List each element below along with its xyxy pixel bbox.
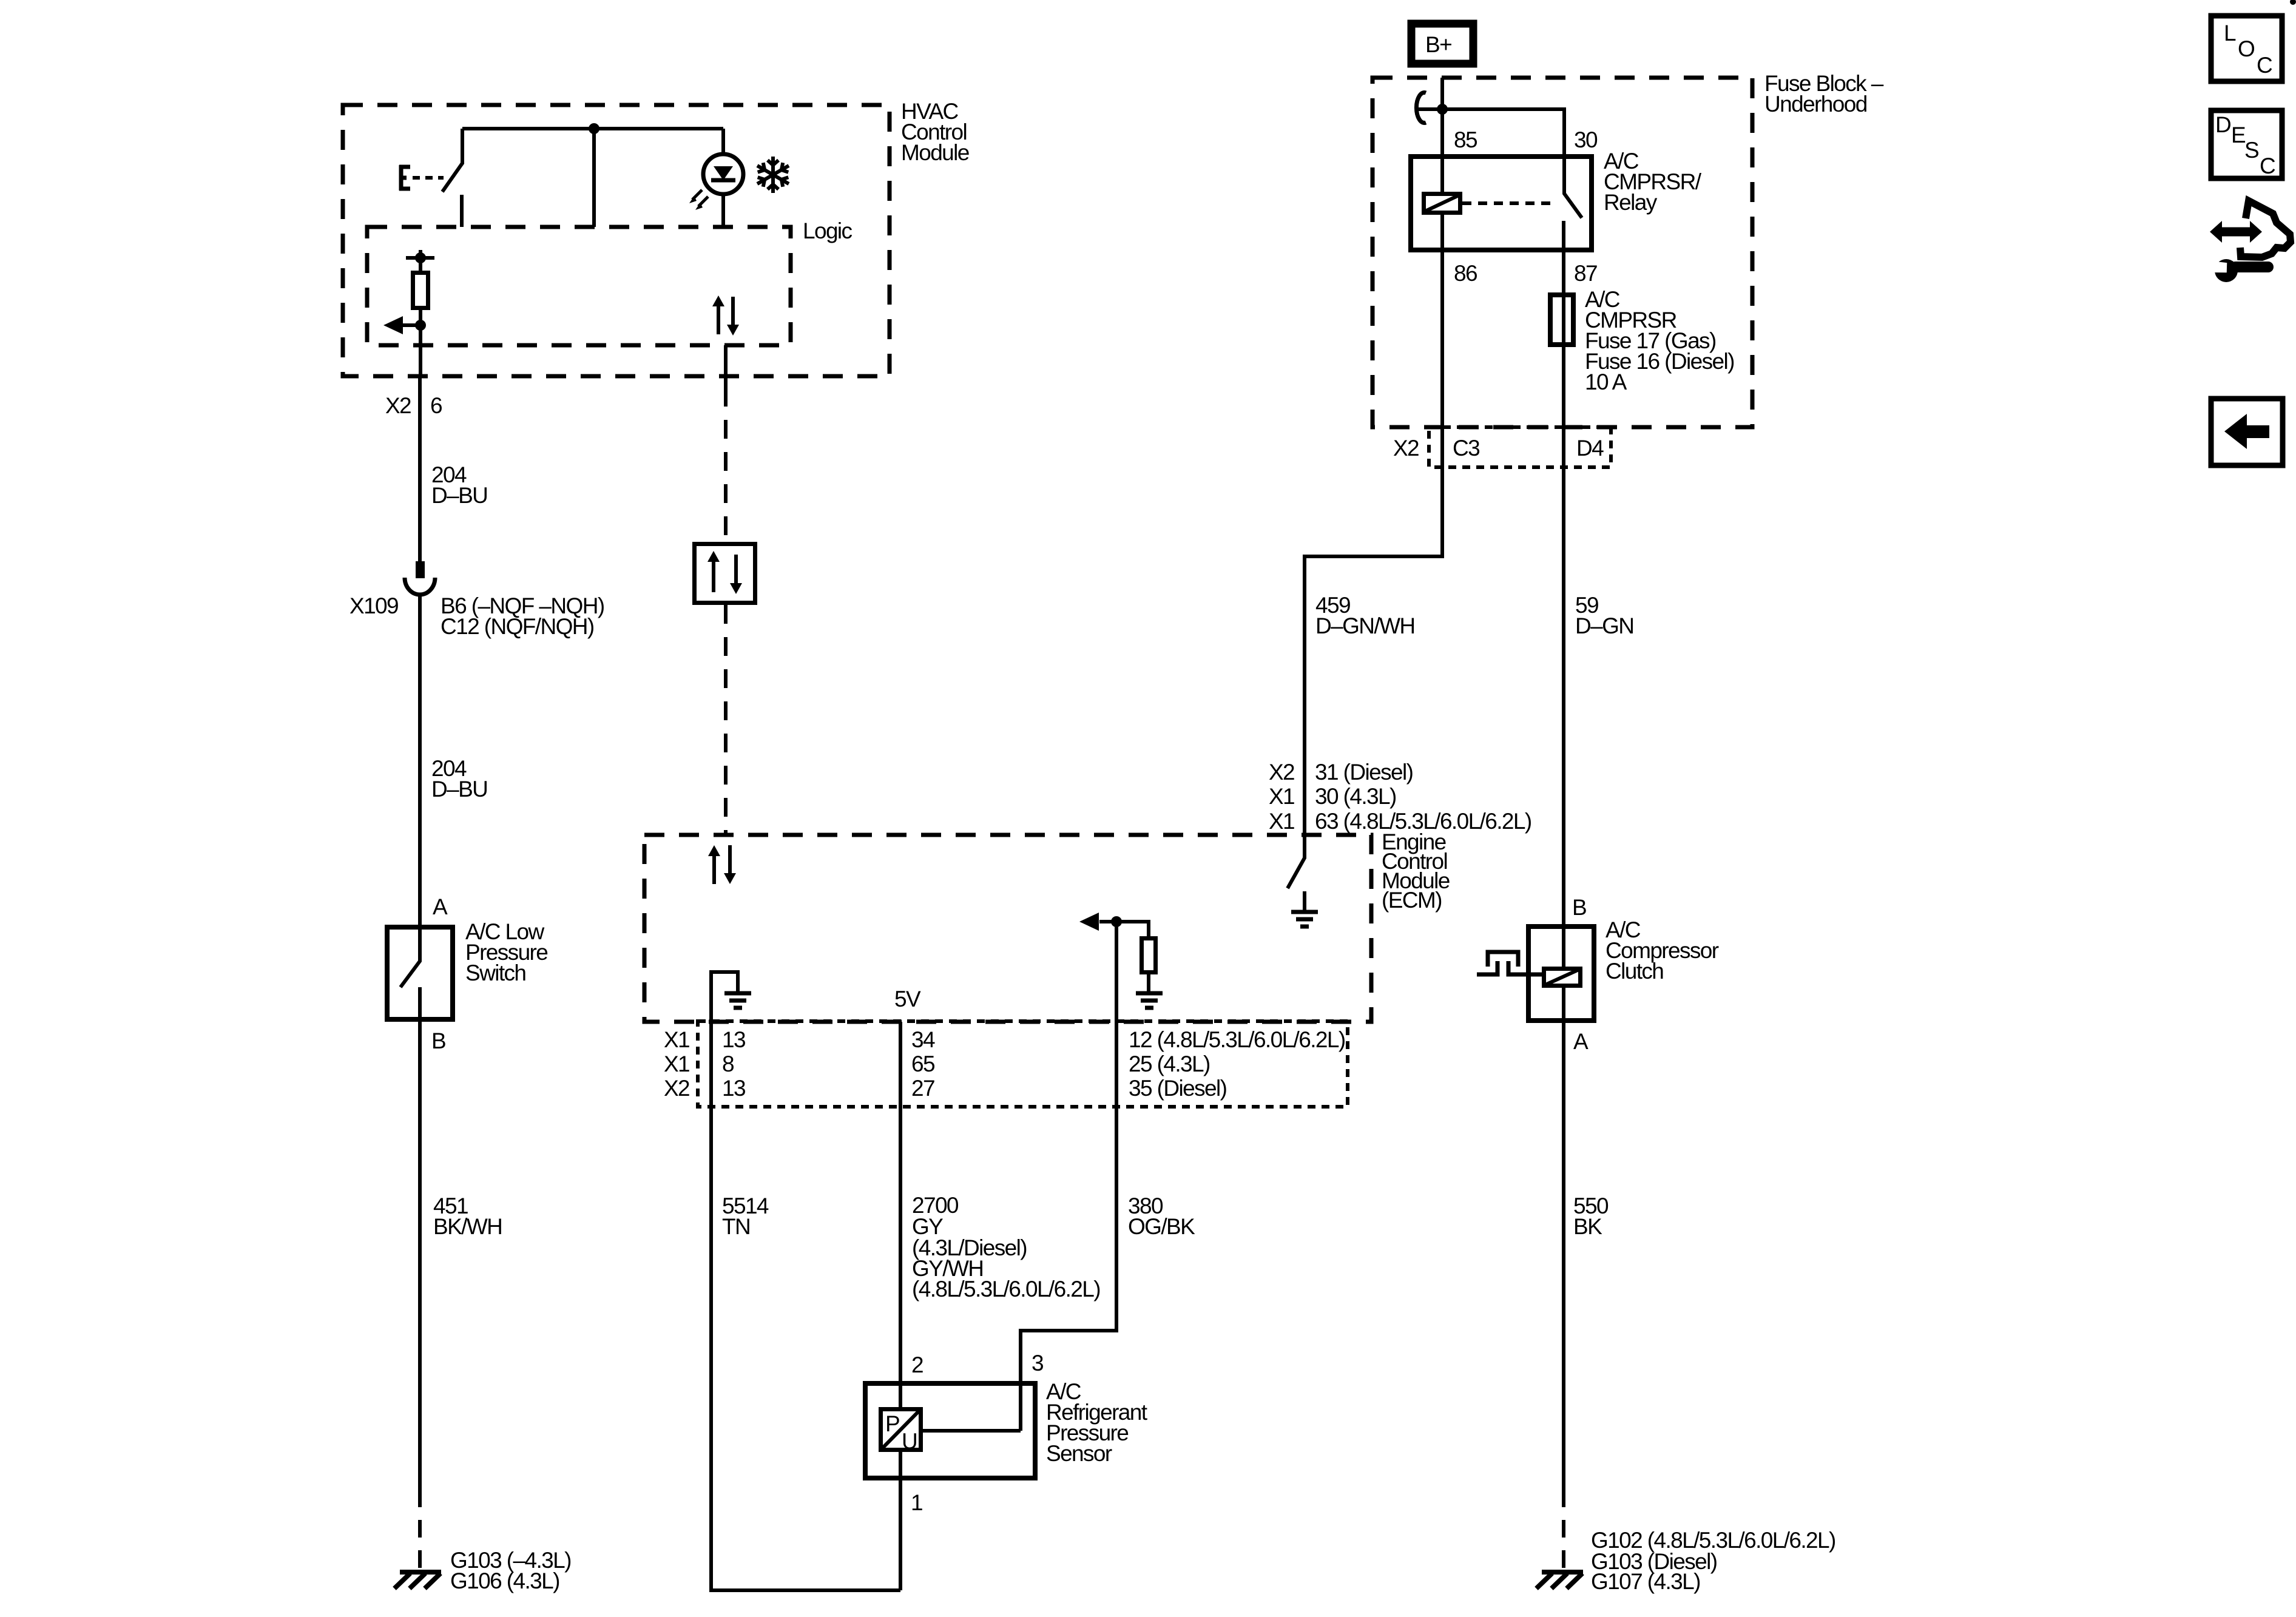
svg-text:27: 27 <box>911 1076 934 1101</box>
wire dashed to ground G103/G106 <box>418 1490 422 1570</box>
svg-text:X109: X109 <box>349 593 398 618</box>
Logic box <box>367 218 853 345</box>
svg-text:Relay: Relay <box>1604 190 1658 215</box>
svg-text:BK/WH: BK/WH <box>433 1214 502 1239</box>
svg-text:U: U <box>902 1429 917 1454</box>
wire B+ into fuse block <box>1440 78 1444 154</box>
wire serial data dashed lower <box>724 605 728 835</box>
svg-text:30 (4.3L): 30 (4.3L) <box>1315 784 1396 809</box>
svg-text:X1: X1 <box>664 1027 689 1052</box>
svg-text:Sensor: Sensor <box>1046 1441 1112 1466</box>
svg-text:D–GN: D–GN <box>1575 613 1633 638</box>
clutch mechanical linkage symbol <box>1477 952 1542 974</box>
svg-text:65: 65 <box>911 1052 935 1076</box>
resistor R2 in ECM with arrow <box>1079 913 1156 991</box>
svg-text:A: A <box>1573 1029 1589 1054</box>
serial data box symbol <box>695 544 755 603</box>
wire pin 12/25/35 internal <box>1115 922 1118 1022</box>
svg-text:6: 6 <box>430 393 442 418</box>
wire fuse down <box>1562 347 1565 467</box>
svg-text:35 (Diesel): 35 (Diesel) <box>1129 1076 1227 1101</box>
ground G102/G103/G107 chassis symbol <box>1536 1528 1835 1594</box>
LOC icon <box>2211 16 2282 81</box>
svg-text:C: C <box>2260 154 2275 178</box>
svg-text:Clutch: Clutch <box>1606 959 1663 984</box>
ground internal ECM far right <box>1291 912 1318 927</box>
serial data arrows in ECM <box>708 845 736 884</box>
svg-text:B: B <box>1572 895 1586 920</box>
snowflake icon <box>755 157 792 193</box>
DESC icon <box>2211 110 2282 178</box>
LED indicator with snowflake <box>689 129 743 227</box>
fuse block connector row X2 C3 D4 <box>1393 427 1611 467</box>
svg-text:8: 8 <box>722 1052 734 1076</box>
wire 451 BK/WH <box>420 1022 502 1490</box>
A/C Compressor Clutch <box>1528 895 1719 1054</box>
connector X2 pin 6 labels <box>385 393 442 418</box>
svg-text:Switch: Switch <box>465 960 525 985</box>
switch internal ECM (A/C relay control) <box>1288 835 1305 910</box>
svg-text:A: A <box>433 894 448 919</box>
wire 204 D-BU upper <box>420 376 487 561</box>
wire ECM pin 13 internal to ground <box>711 972 738 1022</box>
fuse F17/F16 10A <box>1550 287 1734 394</box>
svg-text:X2: X2 <box>385 393 411 418</box>
svg-text:D: D <box>2215 112 2230 137</box>
svg-text:X1: X1 <box>1269 809 1294 834</box>
ground internal ECM right <box>1136 993 1163 1008</box>
svg-text:P: P <box>885 1411 899 1436</box>
svg-text:S: S <box>2244 138 2258 163</box>
ECM connector row box <box>664 1021 1348 1107</box>
wire 204 D-BU lower <box>420 595 487 925</box>
svg-text:G106 (4.3L): G106 (4.3L) <box>450 1568 559 1593</box>
svg-text:Module: Module <box>901 140 969 165</box>
svg-text:O: O <box>2238 36 2255 61</box>
svg-text:(ECM): (ECM) <box>1382 888 1442 913</box>
wire pin 87 to fuse <box>1562 252 1565 292</box>
wire junction to pin 30 <box>1442 109 1564 154</box>
back arrow icon <box>2211 399 2283 465</box>
svg-text:(4.8L/5.3L/6.0L/6.2L): (4.8L/5.3L/6.0L/6.2L) <box>912 1277 1100 1301</box>
svg-text:Logic: Logic <box>803 218 853 243</box>
svg-text:85: 85 <box>1454 127 1477 152</box>
svg-text:X1: X1 <box>664 1052 689 1076</box>
svg-text:63 (4.8L/5.3L/6.0L/6.2L): 63 (4.8L/5.3L/6.0L/6.2L) <box>1315 809 1531 834</box>
svg-text:12 (4.8L/5.3L/6.0L/6.2L): 12 (4.8L/5.3L/6.0L/6.2L) <box>1129 1027 1345 1052</box>
svg-text:87: 87 <box>1574 261 1597 286</box>
ground internal ECM left <box>724 993 751 1008</box>
svg-text:34: 34 <box>911 1027 935 1052</box>
svg-text:C3: C3 <box>1453 436 1479 461</box>
fusible element hook <box>1416 92 1442 123</box>
connector repair icon (hand, arrow, wrench) <box>2207 201 2291 282</box>
svg-text:13: 13 <box>722 1076 745 1101</box>
svg-text:C12 (NQF/NQH): C12 (NQF/NQH) <box>441 614 594 639</box>
HVAC Control Module box <box>343 99 969 376</box>
wire serial data dashed upper <box>724 388 728 542</box>
wire junction to logic <box>592 129 596 227</box>
svg-text:X1: X1 <box>1269 784 1294 809</box>
svg-text:E: E <box>2231 123 2246 147</box>
wire 2700 GY <box>900 1022 1100 1407</box>
svg-text:G107 (4.3L): G107 (4.3L) <box>1591 1569 1700 1594</box>
A/C CMPRSR Relay <box>1411 127 1702 286</box>
resistor R1 in logic with wiper arrow <box>383 250 434 376</box>
wire 550 BK <box>1564 1023 1609 1490</box>
B+ power terminal <box>1411 24 1473 64</box>
svg-text:X2: X2 <box>1393 436 1419 461</box>
wire dashed to ground G102 <box>1562 1490 1565 1570</box>
Engine Control Module (ECM) box <box>644 829 1450 1022</box>
serial data arrows in logic <box>712 295 739 388</box>
svg-text:5V: 5V <box>894 987 921 1011</box>
svg-text:D–BU: D–BU <box>431 777 487 802</box>
wire pin 86 down <box>1440 252 1444 556</box>
svg-text:25 (4.3L): 25 (4.3L) <box>1129 1052 1210 1076</box>
wire 59 D-GN <box>1564 467 1633 924</box>
svg-text:BK: BK <box>1573 1214 1602 1239</box>
svg-text:2: 2 <box>911 1352 923 1377</box>
svg-text:D4: D4 <box>1576 436 1604 461</box>
svg-text:10 A: 10 A <box>1585 370 1627 394</box>
svg-text:13: 13 <box>722 1027 745 1052</box>
svg-text:X2: X2 <box>664 1076 689 1101</box>
svg-text:B+: B+ <box>1425 32 1451 57</box>
wire 5514 TN <box>711 1022 900 1590</box>
wire top bus in HVAC <box>462 127 723 130</box>
A/C Low Pressure Switch <box>387 894 547 1053</box>
inline connector X109 <box>349 561 604 639</box>
svg-text:C: C <box>2257 53 2272 78</box>
svg-text:3: 3 <box>1032 1351 1043 1376</box>
switch S1 A/C request (E operator) <box>399 129 462 227</box>
wire 380 OG/BK <box>1021 1022 1195 1431</box>
svg-text:Underhood: Underhood <box>1764 92 1867 116</box>
svg-text:L: L <box>2224 21 2236 46</box>
svg-text:30: 30 <box>1574 127 1598 152</box>
node junction B+ bus <box>1437 104 1448 115</box>
ECM connector pins X2 31 X1 30 X1 63 <box>1269 760 1531 834</box>
svg-text:31 (Diesel): 31 (Diesel) <box>1315 760 1413 785</box>
svg-text:D–GN/WH: D–GN/WH <box>1315 613 1415 638</box>
svg-text:X2: X2 <box>1269 760 1294 785</box>
svg-text:OG/BK: OG/BK <box>1128 1214 1195 1239</box>
A/C Refrigerant Pressure Sensor <box>865 1351 1148 1590</box>
svg-text:D–BU: D–BU <box>431 483 487 508</box>
wire 459 D-GN/WH <box>1305 467 1442 835</box>
Fuse Block - Underhood box <box>1373 71 1884 427</box>
svg-text:1: 1 <box>911 1490 922 1515</box>
svg-text:B: B <box>431 1028 445 1053</box>
svg-text:86: 86 <box>1454 261 1477 286</box>
node junction top bus <box>589 123 599 134</box>
margin dot <box>2290 0 2296 5</box>
svg-text:TN: TN <box>722 1214 750 1239</box>
ground G103/G106 chassis symbol <box>394 1548 571 1593</box>
